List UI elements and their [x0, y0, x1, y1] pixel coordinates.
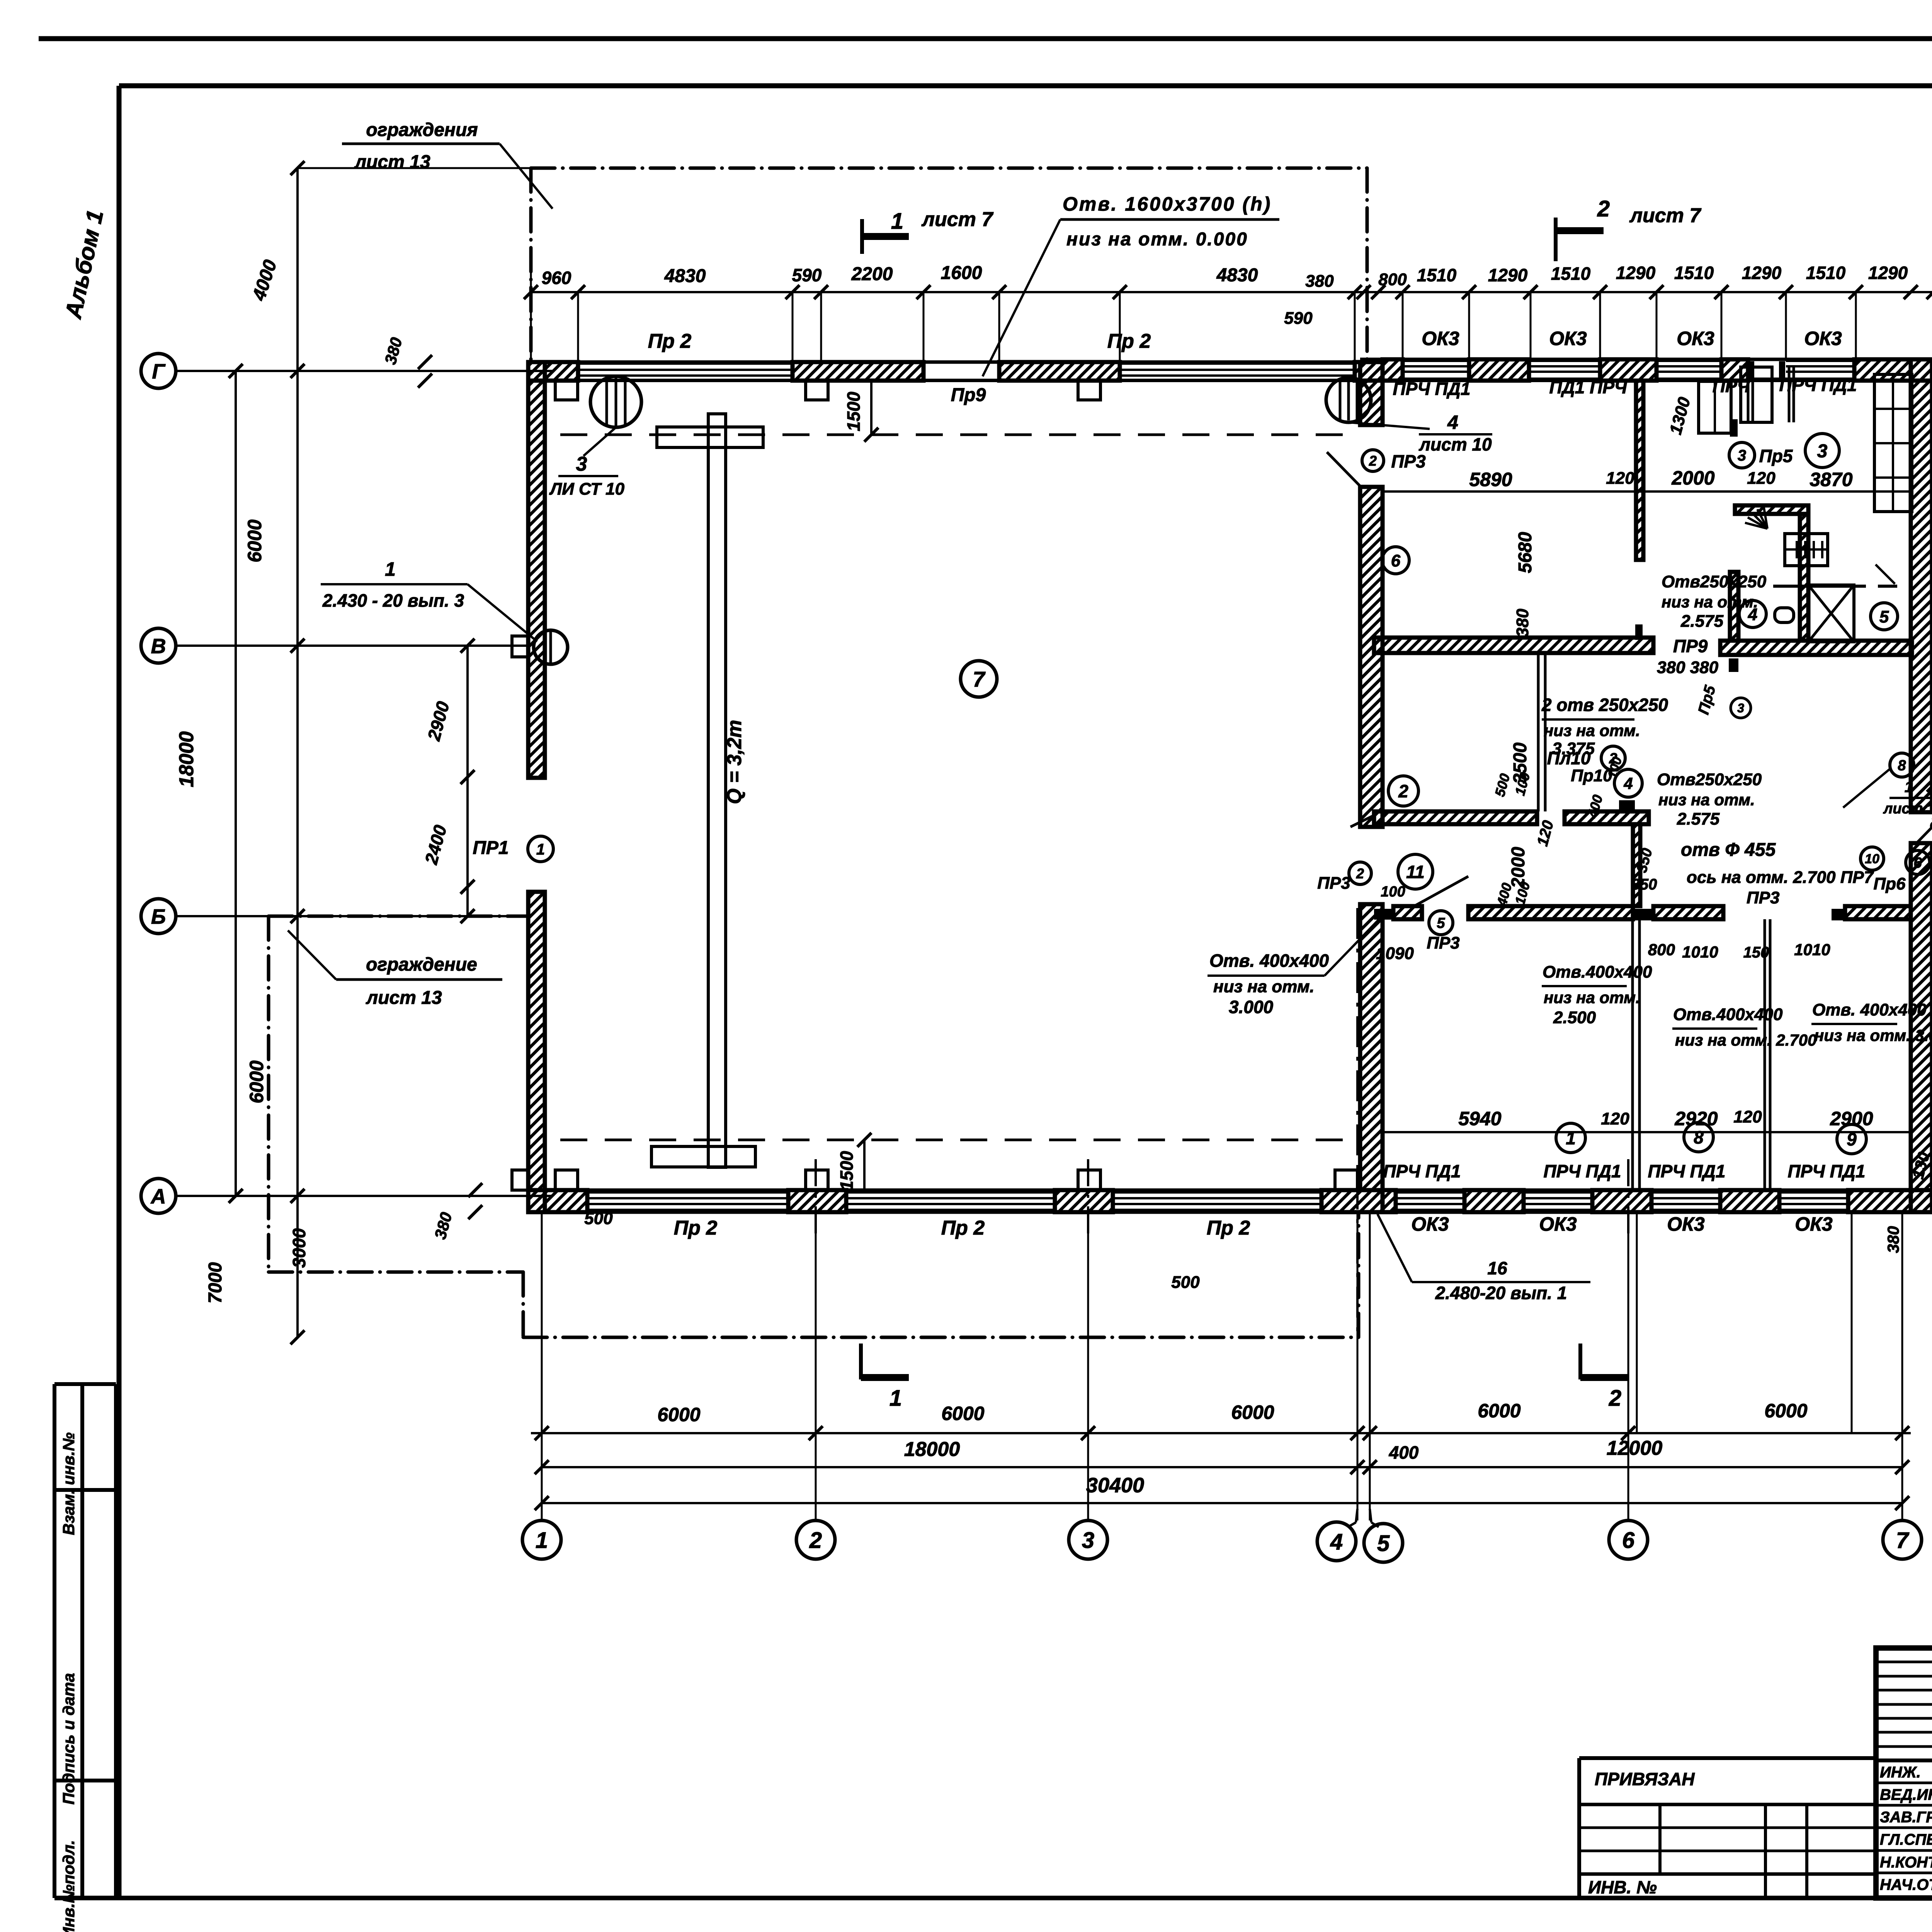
svg-text:низ на отм. 2.700: низ на отм. 2.700 [1675, 1031, 1816, 1049]
annex mid wall H2 west [1374, 638, 1653, 653]
svg-text:1010: 1010 [1794, 940, 1830, 959]
wardrobe cabinet top A [1699, 381, 1731, 433]
svg-text:12000: 12000 [1607, 1437, 1663, 1459]
annex top wall piers [1383, 359, 1403, 381]
PR3 door label upper [1362, 450, 1384, 471]
svg-text:7000: 7000 [205, 1262, 226, 1303]
room 4 circle [1739, 600, 1766, 628]
svg-text:2: 2 [1369, 453, 1377, 469]
svg-text:4: 4 [1623, 774, 1633, 793]
svg-text:590: 590 [1284, 309, 1313, 328]
annex bottom wall piers [1383, 1190, 1396, 1212]
svg-text:10: 10 [1865, 852, 1879, 866]
svg-text:ОК3: ОК3 [1804, 328, 1842, 349]
sheet outer top line [39, 36, 1932, 41]
svg-text:2.480-20 вып. 1: 2.480-20 вып. 1 [1435, 1283, 1567, 1303]
sink counter line [1773, 585, 1866, 588]
svg-text:ИНЖ.: ИНЖ. [1880, 1764, 1921, 1781]
svg-text:1: 1 [385, 558, 396, 580]
axis letter circles [141, 354, 176, 388]
horizontal axis lines [176, 370, 528, 372]
svg-text:960: 960 [542, 268, 571, 288]
svg-text:лист 13: лист 13 [366, 988, 442, 1008]
svg-text:ОК3: ОК3 [1549, 328, 1587, 349]
svg-text:1600: 1600 [941, 263, 982, 283]
svg-text:ПРИВЯЗАН: ПРИВЯЗАН [1595, 1769, 1695, 1789]
svg-text:лист 13: лист 13 [354, 152, 430, 172]
svg-text:1290: 1290 [1616, 263, 1656, 283]
svg-text:лист 10: лист 10 [1883, 801, 1932, 817]
svg-text:ограждения: ограждения [366, 120, 478, 140]
svg-text:6000: 6000 [657, 1404, 700, 1425]
svg-text:НАЧ.ОТД: НАЧ.ОТД [1880, 1876, 1932, 1893]
svg-text:4: 4 [1447, 412, 1458, 433]
room 7 circle [961, 661, 997, 697]
shower tray [1808, 585, 1854, 642]
svg-text:3.375: 3.375 [1552, 739, 1595, 758]
svg-text:6000: 6000 [1231, 1401, 1274, 1423]
upper tambour partitions [1747, 367, 1750, 422]
fence top (dash-dot with dots) [531, 167, 1367, 170]
fence lower-left loop [267, 916, 270, 1272]
svg-text:ОК3: ОК3 [1411, 1213, 1449, 1235]
svg-text:низ на отм.: низ на отм. [1213, 977, 1315, 996]
title block small grid [1876, 1661, 1932, 1663]
room 6 circle [1382, 547, 1409, 574]
svg-text:А: А [150, 1185, 166, 1208]
dim 1500 top [870, 381, 872, 435]
tambur circle 10 [1861, 847, 1884, 870]
title block [1876, 1648, 1932, 1898]
annex top wall faces [1360, 358, 1932, 361]
svg-text:6000: 6000 [1764, 1400, 1807, 1422]
svg-text:Пр9: Пр9 [951, 385, 986, 405]
svg-text:ЛИ СТ 10: ЛИ СТ 10 [549, 480, 625, 498]
corridor top wall [1374, 811, 1537, 824]
svg-text:500: 500 [584, 1209, 613, 1228]
partition V2 [1537, 653, 1540, 811]
svg-text:590: 590 [792, 265, 822, 285]
wardrobe cabinet grid right [1874, 374, 1912, 512]
svg-text:лист 10: лист 10 [1418, 434, 1492, 454]
svg-text:низ на отм. 3.000: низ на отм. 3.000 [1814, 1026, 1932, 1044]
left margin stamp column [53, 1384, 56, 1898]
hall bottom wall faces [528, 1189, 1383, 1192]
svg-text:низ на отм.: низ на отм. [1544, 721, 1640, 740]
svg-text:ПРЧ: ПРЧ [1713, 376, 1750, 396]
corridor bottom wall segments [1393, 906, 1422, 919]
hall left wall upper segment [528, 362, 545, 778]
svg-text:2.430 - 20 вып. 3: 2.430 - 20 вып. 3 [322, 590, 464, 611]
sanuzel wall horizontal [1735, 505, 1808, 514]
top dim extension lines [577, 292, 579, 362]
hall top wall piers [528, 362, 578, 381]
svg-text:ОК3: ОК3 [1422, 328, 1459, 349]
svg-text:380: 380 [1513, 609, 1532, 637]
svg-text:800: 800 [1378, 270, 1407, 289]
svg-text:2: 2 [809, 1528, 822, 1553]
wardrobe cabinet top B [1741, 367, 1772, 422]
fence top-left riser [529, 168, 533, 362]
svg-text:ПР3: ПР3 [1747, 888, 1779, 907]
svg-text:Q = 3,2т: Q = 3,2т [723, 720, 746, 804]
svg-text:В: В [151, 634, 166, 658]
svg-text:1: 1 [889, 1386, 902, 1411]
hall top wall opening lintel line [923, 379, 999, 381]
section mark 1 (top) [860, 219, 864, 254]
svg-text:ПРЧ ПД1: ПРЧ ПД1 [1779, 375, 1857, 395]
svg-text:Пр 2: Пр 2 [1207, 1217, 1250, 1239]
annex separator wall (axis 5) segments [1360, 362, 1383, 425]
svg-text:Отв.400х400: Отв.400х400 [1543, 963, 1652, 981]
svg-text:7: 7 [973, 667, 986, 691]
svg-text:500: 500 [1171, 1273, 1200, 1292]
svg-text:18000: 18000 [175, 731, 198, 787]
sanuzel door stub [1730, 572, 1738, 641]
svg-text:лист 7: лист 7 [1629, 204, 1702, 227]
svg-text:1510: 1510 [1417, 265, 1457, 285]
svg-text:Пр 2: Пр 2 [648, 330, 692, 352]
Pr5 and node 3 circles [1729, 442, 1755, 468]
svg-text:ПР1: ПР1 [473, 838, 509, 858]
svg-text:16: 16 [1487, 1258, 1507, 1278]
svg-text:3.000: 3.000 [1229, 997, 1274, 1017]
room 11 circle [1398, 854, 1433, 889]
svg-text:2: 2 [1356, 866, 1364, 881]
svg-text:380: 380 [1884, 1226, 1902, 1253]
hall left wall lower segment [528, 892, 545, 1212]
svg-text:11: 11 [1406, 862, 1425, 882]
leaders to circles 4 5 [1356, 1509, 1357, 1522]
svg-text:3000: 3000 [289, 1228, 309, 1268]
annex bottom wall windows OK3 [1396, 1191, 1464, 1194]
svg-text:Б: Б [151, 905, 166, 928]
svg-text:120: 120 [1606, 469, 1634, 488]
svg-text:Отв250х250: Отв250х250 [1662, 572, 1767, 591]
svg-text:Пр5: Пр5 [1759, 446, 1793, 466]
room 9 circle [1837, 1124, 1866, 1154]
left dim line segments [296, 168, 299, 1337]
svg-text:1510: 1510 [1806, 263, 1846, 283]
svg-text:1500: 1500 [844, 391, 864, 431]
toilet [1775, 608, 1794, 622]
svg-text:Отв250х250: Отв250х250 [1657, 770, 1762, 789]
svg-text:120: 120 [1733, 1107, 1762, 1126]
svg-text:1: 1 [536, 841, 545, 858]
signature rows [1876, 1782, 1932, 1784]
svg-text:3: 3 [1082, 1528, 1094, 1553]
svg-text:Пр 2: Пр 2 [941, 1217, 985, 1239]
svg-text:6: 6 [1622, 1528, 1635, 1553]
svg-text:380 380: 380 380 [1657, 658, 1719, 677]
left wall outer bump lower [512, 1170, 528, 1190]
svg-text:ИНВ. №: ИНВ. № [1588, 1877, 1657, 1897]
svg-text:низ на отм.: низ на отм. [1544, 988, 1640, 1007]
partition rooms 8|9 [1764, 919, 1766, 1190]
section mark 2 bottom [1578, 1344, 1582, 1379]
svg-text:2900: 2900 [1830, 1108, 1873, 1129]
svg-text:30400: 30400 [1086, 1474, 1144, 1497]
svg-text:ВЕД.ИНЖ.: ВЕД.ИНЖ. [1880, 1786, 1932, 1803]
svg-text:2.575: 2.575 [1680, 612, 1724, 631]
svg-text:Взам. инв.№: Взам. инв.№ [60, 1432, 78, 1535]
svg-text:ПРЧ ПД1: ПРЧ ПД1 [1648, 1161, 1725, 1181]
svg-text:150: 150 [1743, 944, 1769, 961]
room 5 circle [1871, 603, 1898, 630]
svg-text:6: 6 [1913, 855, 1922, 871]
annex top wall windows OK3 [1403, 360, 1469, 362]
svg-text:100: 100 [1381, 884, 1405, 900]
crane beam top cap [657, 427, 763, 447]
svg-text:1290: 1290 [1488, 265, 1528, 285]
svg-text:ОК3: ОК3 [1677, 328, 1714, 349]
svg-text:низ на отм.: низ на отм. [1662, 593, 1758, 611]
svg-text:18000: 18000 [904, 1438, 960, 1461]
svg-text:5: 5 [1377, 1531, 1390, 1556]
svg-text:ПД1 ПРЧ: ПД1 ПРЧ [1549, 377, 1627, 397]
door leaf PR6 [1917, 811, 1932, 843]
hall bottom wall piers [528, 1190, 587, 1212]
hall dashed line top [560, 434, 1348, 436]
svg-text:2 отв 250х250: 2 отв 250х250 [1541, 695, 1668, 715]
svg-text:380: 380 [1305, 272, 1334, 291]
PR3 door label 5 [1429, 911, 1453, 935]
svg-text:2: 2 [1609, 1386, 1621, 1411]
svg-text:1290: 1290 [1868, 263, 1908, 283]
svg-text:Н.КОНТР: Н.КОНТР [1880, 1854, 1932, 1871]
dim 1500 bottom [863, 1140, 866, 1190]
room 8 circle [1684, 1122, 1713, 1152]
svg-text:ПРЧ ПД1: ПРЧ ПД1 [1383, 1161, 1461, 1181]
detail circle B right side [1890, 753, 1914, 777]
section mark 1 bottom [859, 1344, 863, 1379]
detail circle node 3 top-left [590, 376, 641, 427]
svg-text:2200: 2200 [851, 264, 893, 284]
svg-text:ПРЧ ПД1: ПРЧ ПД1 [1393, 379, 1470, 399]
svg-text:ОК3: ОК3 [1795, 1213, 1833, 1235]
door leaf upper PR3 [1327, 452, 1360, 486]
svg-text:5: 5 [1879, 607, 1889, 626]
partition rooms 1|8 [1631, 919, 1634, 1190]
svg-text:ПР3: ПР3 [1391, 451, 1426, 471]
vertical axis dash-dot in plan [815, 1159, 817, 1236]
svg-text:ось на отм. 2.700 ПР7: ось на отм. 2.700 ПР7 [1687, 868, 1874, 887]
svg-text:3: 3 [576, 453, 587, 475]
svg-text:2: 2 [1398, 781, 1408, 801]
svg-text:3870: 3870 [1810, 469, 1852, 490]
svg-text:4830: 4830 [1216, 265, 1258, 286]
svg-text:6000: 6000 [941, 1403, 984, 1424]
svg-text:ограждение: ограждение [366, 954, 477, 975]
svg-text:6000: 6000 [1478, 1400, 1520, 1422]
svg-text:Пр6: Пр6 [1874, 874, 1906, 893]
section mark 2 (top) [1554, 218, 1558, 261]
svg-text:800: 800 [1648, 940, 1675, 959]
svg-text:1: 1 [1905, 779, 1913, 796]
svg-text:1510: 1510 [1551, 264, 1591, 284]
svg-text:5940: 5940 [1458, 1108, 1501, 1129]
annex bottom wall faces [1383, 1189, 1932, 1192]
svg-text:Отв. 400х400: Отв. 400х400 [1209, 951, 1329, 971]
svg-text:5890: 5890 [1469, 469, 1512, 490]
svg-text:1500: 1500 [837, 1151, 857, 1190]
svg-text:4: 4 [1330, 1529, 1343, 1554]
annex mid wall H2 east [1720, 641, 1912, 655]
svg-text:3: 3 [1817, 441, 1828, 461]
svg-text:2.575: 2.575 [1677, 810, 1720, 828]
crane beam bottom cap [651, 1146, 755, 1167]
svg-text:1010: 1010 [1682, 943, 1718, 961]
svg-text:Инв.№подл.: Инв.№подл. [60, 1840, 78, 1932]
left wall outer bump at axis B [512, 636, 528, 657]
svg-text:1: 1 [536, 1528, 548, 1553]
bottom dim row 1 (6000s) [531, 1432, 1911, 1434]
svg-text:3: 3 [1738, 447, 1746, 464]
fence top-right riser [1366, 168, 1369, 359]
svg-text:120: 120 [1601, 1109, 1629, 1128]
svg-text:ОК3: ОК3 [1539, 1213, 1577, 1235]
svg-text:6: 6 [1391, 551, 1401, 570]
hall pilasters top [555, 381, 578, 400]
svg-text:6000: 6000 [246, 1060, 267, 1103]
room 2 circle [1388, 776, 1418, 806]
svg-text:8: 8 [1898, 758, 1906, 774]
bottom dim row 3 (30400) [542, 1502, 1902, 1504]
svg-text:лист 7: лист 7 [921, 208, 994, 231]
black vent squares on corridor wall [1374, 909, 1393, 920]
svg-text:4830: 4830 [664, 266, 706, 286]
left dim line outer 18000 [235, 371, 237, 1196]
svg-text:низ на отм.: низ на отм. [1658, 791, 1755, 809]
crane beam [708, 414, 726, 1167]
svg-text:ПР9: ПР9 [1673, 636, 1708, 656]
svg-text:7: 7 [1896, 1528, 1910, 1553]
svg-text:Пр 2: Пр 2 [1107, 330, 1151, 352]
corner shelf diagonals [1876, 565, 1895, 584]
svg-text:1290: 1290 [1742, 263, 1782, 283]
hall dashed line bottom [560, 1139, 1348, 1141]
hall pilasters bottom [555, 1170, 578, 1190]
svg-text:2920: 2920 [1674, 1108, 1718, 1129]
sanuzel wall vertical [1800, 514, 1808, 641]
svg-text:5680: 5680 [1515, 532, 1536, 573]
svg-text:отв Ф 455: отв Ф 455 [1681, 840, 1776, 860]
svg-text:1: 1 [891, 209, 903, 234]
black door marks [1730, 419, 1738, 437]
radiator [1785, 534, 1828, 566]
svg-text:ПРЧ ПД1: ПРЧ ПД1 [1787, 1161, 1865, 1181]
svg-text:Г: Г [152, 360, 166, 383]
svg-text:1510: 1510 [1674, 263, 1714, 283]
svg-text:350: 350 [1631, 876, 1657, 893]
svg-text:Пр 2: Пр 2 [674, 1217, 718, 1239]
node circle 6 [1906, 850, 1930, 874]
svg-text:ПРЧ ПД1: ПРЧ ПД1 [1543, 1161, 1621, 1181]
inner frame [119, 83, 1932, 88]
annex right wall upper [1911, 359, 1932, 812]
svg-text:120: 120 [1747, 469, 1776, 488]
svg-text:ПР3: ПР3 [1427, 934, 1459, 952]
svg-text:2000: 2000 [1671, 467, 1714, 489]
horizontal extension to fence top [298, 167, 531, 169]
svg-text:низ на отм. 0.000: низ на отм. 0.000 [1066, 229, 1248, 250]
svg-text:1090: 1090 [1376, 944, 1414, 963]
hall top wall window sills [578, 362, 793, 365]
left dim 2900 2400 [466, 646, 469, 916]
svg-text:2: 2 [1597, 196, 1610, 221]
partition V1 [1636, 381, 1643, 560]
detail circle node 4 top-right of hall [1326, 378, 1371, 422]
door swing symbol [1764, 508, 1767, 529]
svg-text:Отв. 400х400: Отв. 400х400 [1812, 1000, 1927, 1019]
hall top wall faces [528, 361, 1383, 364]
left extension block [1579, 1756, 1876, 1760]
svg-text:Отв.400х400: Отв.400х400 [1673, 1005, 1783, 1024]
svg-text:Подпись и дата: Подпись и дата [60, 1673, 78, 1804]
svg-text:6000: 6000 [244, 519, 265, 562]
svg-text:Отв. 1600х3700 (h): Отв. 1600х3700 (h) [1063, 193, 1272, 215]
svg-text:2.500: 2.500 [1553, 1008, 1596, 1027]
svg-text:ЗАВ.ГР.: ЗАВ.ГР. [1880, 1809, 1932, 1826]
hall bottom wall window sills [587, 1191, 788, 1194]
detail circle node 1 at axis B [534, 630, 568, 664]
partition V3 [1633, 824, 1640, 906]
svg-text:ПР3: ПР3 [1317, 874, 1350, 893]
top wall door PD1 opening jambs [1748, 378, 1786, 380]
svg-text:400: 400 [1389, 1442, 1419, 1463]
svg-text:ГЛ.СПЕЦ: ГЛ.СПЕЦ [1880, 1831, 1932, 1848]
svg-text:8: 8 [1694, 1128, 1704, 1148]
svg-text:ОК3: ОК3 [1667, 1213, 1705, 1235]
svg-text:5: 5 [1437, 915, 1445, 932]
room 1 circle [1556, 1123, 1585, 1153]
top dimension line [531, 291, 1932, 293]
annex right wall lower [1911, 843, 1932, 1212]
vertical axis extension lines [541, 1212, 543, 1520]
frame bottom line (title block base) [54, 1896, 1932, 1900]
bottom dim row 2 [542, 1466, 1902, 1468]
door leaf corridor [1414, 876, 1468, 906]
svg-text:3: 3 [1737, 701, 1744, 715]
axis number circles [522, 1520, 561, 1559]
